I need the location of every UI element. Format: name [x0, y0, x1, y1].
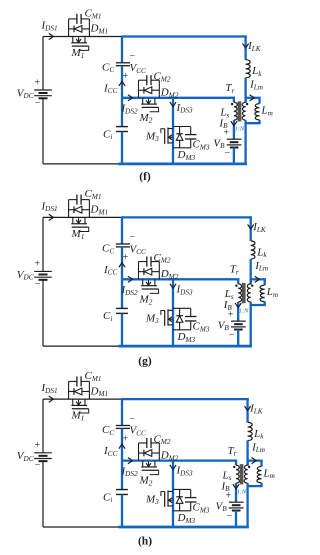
label V_CC minus g — [130, 232, 136, 243]
svg-text:(g): (g) — [138, 355, 152, 367]
wire mid column seg3 g — [121, 279, 123, 308]
arrow I_DS3 f — [170, 102, 176, 107]
wire bottom black h — [43, 526, 119, 528]
inductor L_k g — [251, 241, 255, 259]
wire transformer primary bottom lead h — [246, 483, 248, 528]
svg-text:Lk: Lk — [256, 246, 267, 259]
wire secondary bottom lead g — [237, 302, 239, 321]
wire L_m right upper h — [260, 460, 262, 467]
wire left vertical upper g — [42, 217, 44, 271]
wire right column upper h — [246, 398, 248, 422]
transformer dot secondary g — [235, 284, 237, 286]
label V_CC h — [130, 425, 147, 438]
label I_DS3 g — [176, 283, 193, 296]
svg-text:1:N: 1:N — [239, 308, 249, 315]
label V_DC plus f — [35, 77, 41, 88]
label V_DC g — [17, 269, 34, 282]
label C_M3 g — [193, 321, 210, 334]
wire bottom rail h — [119, 526, 249, 529]
arrow I_Lm f — [250, 95, 255, 101]
wire left vertical lower g — [42, 280, 44, 346]
label I_Lm f — [249, 79, 263, 92]
label V_B h — [216, 500, 228, 513]
wire input top (I_DS1 wire) g — [43, 216, 122, 218]
wire transformer secondary top lead g — [237, 278, 239, 284]
wire transformer primary top lead g — [250, 278, 252, 284]
wire right column upper g — [250, 216, 252, 240]
svg-text:Ci: Ci — [103, 310, 112, 323]
mosfet M3 h — [145, 490, 173, 506]
transformer dot secondary f — [231, 103, 233, 105]
svg-text:−: − — [130, 414, 136, 425]
arrow I_B h — [233, 484, 239, 489]
label I_LK h — [249, 403, 264, 416]
svg-text:Tr: Tr — [225, 82, 234, 95]
svg-text:VB: VB — [213, 137, 225, 150]
label C_C g — [102, 243, 114, 256]
wire right column lower g — [250, 259, 252, 284]
svg-text:VCC: VCC — [130, 425, 147, 438]
svg-text:−: − — [35, 460, 41, 471]
arrow I_Lm g — [255, 276, 260, 282]
svg-text:Lm: Lm — [261, 105, 273, 118]
snubber C_M2 D_M2 box g — [139, 252, 179, 281]
label L_s h — [222, 469, 232, 482]
wire mid column seg1 h — [121, 398, 123, 425]
svg-text:+: + — [35, 77, 41, 88]
label V_DC f — [17, 87, 34, 100]
svg-text:DM1: DM1 — [90, 204, 109, 217]
svg-text:+: + — [123, 71, 129, 82]
label I_DS3 h — [176, 465, 193, 478]
svg-text:1:N: 1:N — [237, 489, 247, 496]
transformer L_s secondary winding h — [236, 465, 239, 483]
label C_M3 h — [193, 502, 210, 515]
svg-text:(f): (f) — [139, 171, 151, 183]
wire middle node f — [122, 97, 235, 99]
svg-text:CM1: CM1 — [85, 188, 102, 201]
wire L_m right upper f — [258, 97, 260, 104]
svg-text:+: + — [226, 490, 232, 501]
svg-text:M3: M3 — [145, 312, 159, 325]
arrow I_DS3 h — [170, 465, 176, 470]
wire top rail f — [122, 35, 247, 37]
wire right column lower f — [244, 78, 246, 103]
label V_B g — [218, 319, 230, 332]
label I_LK f — [247, 40, 262, 53]
label V_CC plus f — [123, 71, 129, 82]
svg-text:ILK: ILK — [252, 221, 267, 234]
label D_M3 g — [177, 331, 196, 344]
label L_k g — [256, 246, 267, 259]
mosfet M2 f — [139, 98, 159, 125]
transformer L_s secondary winding g — [238, 284, 241, 302]
inductor L_k f — [246, 60, 251, 78]
capacitor C_C g — [116, 244, 130, 247]
transformer T_r primary winding h — [244, 465, 247, 483]
transformer dot secondary h — [233, 466, 235, 468]
wire L_m bottom jog h — [247, 485, 263, 487]
svg-text:DM3: DM3 — [177, 149, 196, 162]
arrow I_CC g — [119, 263, 125, 268]
wire bottom rail f — [119, 162, 247, 165]
svg-text:ILK: ILK — [247, 40, 262, 53]
svg-text:IDS3: IDS3 — [176, 102, 193, 115]
wire right column upper f — [244, 36, 246, 60]
mosfet M2 g — [139, 279, 159, 306]
label I_DS3 f — [176, 102, 193, 115]
label 1:N f — [235, 126, 245, 133]
wire left vertical upper f — [42, 37, 44, 91]
svg-text:M1: M1 — [71, 47, 85, 60]
svg-text:CM1: CM1 — [85, 8, 102, 21]
wire L_m right lower f — [258, 120, 260, 123]
svg-text:VB: VB — [218, 319, 230, 332]
snubber C_M2 D_M2 box h — [139, 433, 179, 462]
wire secondary bottom lead h — [235, 483, 237, 502]
svg-text:CM2: CM2 — [154, 71, 171, 84]
svg-text:IDS2: IDS2 — [121, 103, 138, 116]
label T_r f — [225, 82, 234, 95]
label I_B f — [218, 117, 228, 130]
label I_Lm h — [251, 441, 265, 454]
svg-text:CC: CC — [102, 424, 114, 437]
svg-text:Ci: Ci — [103, 128, 112, 141]
arrow I_DS1 g — [49, 214, 54, 220]
wire top rail g — [122, 216, 252, 218]
wire mid column seg2 f — [121, 66, 123, 98]
svg-text:−: − — [224, 148, 230, 159]
battery V_DC f — [34, 90, 52, 98]
label T_r h — [228, 445, 237, 458]
snubber C_M2 D_M2 box f — [139, 71, 179, 100]
snubber D_M3 C_M3 network h — [173, 489, 196, 510]
snubber C_M1 D_M1 box g — [69, 188, 108, 217]
svg-text:+: + — [35, 440, 41, 451]
svg-text:+: + — [223, 128, 229, 139]
arrow I_CC f — [119, 81, 125, 86]
svg-text:IDS2: IDS2 — [121, 284, 138, 297]
snubber C_M1 D_M1 box f — [69, 8, 108, 37]
mosfet M3 g — [145, 309, 173, 326]
svg-text:IDS2: IDS2 — [121, 465, 138, 478]
svg-text:ILm: ILm — [254, 260, 268, 273]
label V_DC h — [17, 450, 34, 463]
transformer dot primary g — [251, 284, 253, 286]
svg-text:ICC: ICC — [103, 82, 117, 95]
wire L_m right lower h — [260, 483, 262, 486]
svg-text:IDS3: IDS3 — [176, 465, 193, 478]
wire transformer secondary top lead h — [235, 460, 237, 466]
svg-text:M1: M1 — [71, 228, 85, 241]
label I_CC f — [103, 82, 117, 95]
svg-text:ILm: ILm — [251, 441, 265, 454]
svg-text:CM3: CM3 — [193, 321, 210, 334]
transformer T_r primary winding g — [247, 284, 250, 302]
label I_CC h — [103, 445, 117, 458]
svg-text:CM2: CM2 — [154, 252, 171, 265]
arrow I_B g — [235, 303, 241, 308]
svg-text:Lm: Lm — [266, 286, 278, 299]
label V_DC plus g — [35, 259, 41, 270]
svg-text:Ci: Ci — [103, 491, 112, 504]
svg-text:M2: M2 — [139, 112, 153, 125]
capacitor C_i f — [116, 127, 128, 132]
label I_DS2 f — [121, 103, 138, 116]
svg-text:−: − — [130, 232, 136, 243]
label L_s f — [219, 107, 229, 120]
wire bottom black g — [43, 345, 119, 347]
svg-text:VDC: VDC — [17, 87, 34, 100]
label I_CC g — [103, 264, 117, 277]
label D_M3 h — [177, 512, 196, 525]
transformer dot primary h — [248, 466, 250, 468]
arrow I_LK g — [248, 224, 254, 229]
capacitor C_i g — [116, 308, 128, 313]
arrow I_DS3 g — [170, 284, 176, 289]
wire right column lower h — [246, 441, 248, 466]
wire top rail h — [122, 398, 249, 400]
arrow I_LK h — [245, 406, 251, 411]
svg-text:M2: M2 — [139, 294, 153, 307]
label I_DS1 h — [41, 382, 58, 395]
svg-text:+: + — [123, 434, 129, 445]
snubber C_M1 D_M1 box h — [69, 370, 108, 399]
wire middle node h — [122, 459, 237, 461]
label I_B h — [221, 480, 231, 493]
inductor L_k h — [248, 422, 253, 440]
svg-text:CC: CC — [102, 243, 114, 256]
inductor L_m g — [260, 285, 265, 301]
transformer core f — [238, 101, 242, 121]
battery V_DC g — [34, 271, 52, 279]
svg-text:CM2: CM2 — [154, 433, 171, 446]
label 1:N g — [239, 308, 249, 315]
label D_M3 f — [177, 149, 196, 162]
capacitor C_C h — [116, 426, 130, 429]
mosfet M3 f — [145, 128, 173, 144]
arrow I_DS2 g — [128, 276, 133, 282]
label T_r g — [230, 263, 239, 276]
svg-text:+: + — [123, 252, 129, 263]
mosfet M2 h — [139, 461, 159, 488]
wire secondary bottom lead f — [233, 120, 235, 139]
label C_C f — [102, 61, 114, 74]
wire mid column seg1 g — [121, 216, 123, 244]
wire L_m bottom jog f — [245, 122, 261, 124]
wire V_B bottom lead g — [237, 330, 239, 347]
arrow I_B f — [231, 121, 237, 126]
svg-text:Lm: Lm — [263, 467, 275, 480]
wire input top (I_DS1 wire) f — [43, 36, 122, 38]
label C_i f — [103, 128, 112, 141]
svg-text:DM3: DM3 — [177, 331, 196, 344]
svg-text:M1: M1 — [71, 410, 85, 423]
arrow I_DS2 f — [128, 95, 133, 101]
svg-text:CM3: CM3 — [193, 502, 210, 515]
svg-text:DM2: DM2 — [160, 87, 179, 100]
wire transformer primary bottom lead f — [244, 120, 246, 165]
wire L_m right lower g — [264, 302, 266, 305]
wire mid column seg3 h — [121, 461, 123, 490]
arrow I_Lm h — [252, 458, 257, 464]
battery V_B f — [227, 139, 242, 147]
mosfet M1 h — [71, 399, 89, 422]
svg-text:M3: M3 — [145, 493, 159, 506]
svg-text:VB: VB — [216, 500, 228, 513]
label L_k f — [251, 65, 262, 78]
wire M3 column h — [172, 461, 174, 527]
svg-text:DM3: DM3 — [177, 512, 196, 525]
svg-text:IDS1: IDS1 — [41, 382, 58, 395]
label V_B minus g — [229, 330, 235, 341]
snubber D_M3 C_M3 network f — [173, 127, 196, 148]
transformer L_s secondary winding f — [234, 102, 237, 120]
wire mid column seg2 g — [121, 247, 123, 279]
svg-text:VCC: VCC — [130, 243, 147, 256]
wire mid column seg2 h — [121, 428, 123, 460]
label I_DS1 f — [41, 20, 58, 33]
svg-text:−: − — [227, 511, 233, 522]
svg-text:CC: CC — [102, 61, 114, 74]
wire transformer primary bottom lead g — [250, 302, 252, 347]
wire mid column seg4 g — [121, 313, 123, 346]
wire input top (I_DS1 wire) h — [43, 398, 122, 400]
arrow I_LK f — [243, 43, 249, 48]
label V_B minus h — [227, 511, 233, 522]
label V_B plus g — [228, 309, 234, 320]
label L_m f — [261, 105, 273, 118]
wire bottom black f — [43, 163, 119, 165]
svg-text:VDC: VDC — [17, 450, 34, 463]
wire L_m bottom jog g — [250, 304, 266, 306]
svg-text:1:N: 1:N — [235, 126, 245, 133]
wire M3 column g — [172, 279, 174, 346]
label I_B g — [223, 299, 233, 312]
svg-text:Tr: Tr — [230, 263, 239, 276]
label L_k h — [253, 428, 264, 441]
label C_i g — [103, 310, 112, 323]
wire transformer primary top lead h — [246, 460, 248, 466]
wire transformer primary top lead f — [244, 97, 246, 103]
wire middle node g — [122, 278, 239, 280]
label I_DS1 g — [41, 200, 58, 213]
svg-text:−: − — [35, 279, 41, 290]
wire left vertical lower h — [42, 461, 44, 527]
wire L_m right upper g — [264, 278, 266, 285]
svg-text:Tr: Tr — [228, 445, 237, 458]
svg-text:+: + — [228, 309, 234, 320]
battery V_B g — [231, 321, 246, 329]
svg-text:ICC: ICC — [103, 445, 117, 458]
label V_CC f — [130, 62, 147, 75]
arrow I_DS2 h — [128, 458, 133, 464]
svg-text:ICC: ICC — [103, 264, 117, 277]
label V_B plus f — [223, 128, 229, 139]
wire bottom rail g — [119, 345, 252, 348]
label L_m g — [266, 286, 278, 299]
wire M3 column f — [172, 98, 174, 164]
wire L_m top jog g — [251, 278, 266, 280]
svg-text:DM1: DM1 — [90, 385, 109, 398]
svg-text:−: − — [130, 51, 136, 62]
svg-text:+: + — [35, 259, 41, 270]
label V_B f — [213, 137, 225, 150]
arrow I_CC h — [119, 444, 125, 449]
svg-text:Lk: Lk — [251, 65, 262, 78]
battery V_DC h — [34, 453, 52, 461]
svg-text:IDS1: IDS1 — [41, 20, 58, 33]
capacitor C_i h — [116, 490, 128, 495]
svg-text:Lk: Lk — [253, 428, 264, 441]
wire mid column seg4 f — [121, 132, 123, 164]
inductor L_m h — [257, 466, 262, 482]
wire L_m top jog f — [246, 97, 261, 99]
wire left vertical upper h — [42, 399, 44, 453]
wire mid column seg4 h — [121, 494, 123, 527]
arrow I_DS1 f — [49, 33, 54, 39]
wire mid column seg3 f — [121, 98, 123, 127]
label I_Lm g — [254, 260, 268, 273]
label V_B minus f — [224, 148, 230, 159]
transformer dot primary f — [246, 103, 248, 105]
svg-text:DM1: DM1 — [90, 23, 109, 36]
svg-text:CM3: CM3 — [193, 139, 210, 152]
label C_C h — [102, 424, 114, 437]
label L_s g — [224, 288, 234, 301]
label V_CC plus g — [123, 252, 129, 263]
wire mid column seg1 f — [121, 36, 123, 63]
svg-text:−: − — [35, 97, 41, 108]
label C_M3 f — [193, 139, 210, 152]
svg-text:ILm: ILm — [249, 79, 263, 92]
label L_m h — [263, 467, 275, 480]
label V_DC plus h — [35, 440, 41, 451]
wire V_B bottom lead f — [233, 148, 235, 164]
label V_DC minus h — [35, 460, 41, 471]
transformer T_r primary winding f — [242, 102, 245, 120]
svg-text:VCC: VCC — [130, 62, 147, 75]
wire left vertical lower f — [42, 98, 44, 164]
wire transformer secondary top lead f — [233, 97, 235, 103]
transformer core g — [242, 283, 246, 303]
svg-text:DM2: DM2 — [160, 268, 179, 281]
label C_i h — [103, 491, 112, 504]
svg-text:M2: M2 — [139, 475, 153, 488]
svg-text:M3: M3 — [145, 130, 159, 143]
capacitor C_C f — [116, 63, 130, 66]
arrow I_DS1 h — [49, 396, 54, 402]
label V_B plus h — [226, 490, 232, 501]
svg-text:(h): (h) — [138, 536, 152, 548]
mosfet M1 f — [71, 37, 89, 60]
battery V_B h — [229, 502, 244, 510]
svg-text:ILK: ILK — [249, 403, 264, 416]
label 1:N h — [237, 489, 247, 496]
svg-text:VDC: VDC — [17, 269, 34, 282]
label I_DS2 h — [121, 465, 138, 478]
wire V_B bottom lead h — [235, 511, 237, 527]
svg-text:−: − — [229, 330, 235, 341]
svg-text:IDS1: IDS1 — [41, 200, 58, 213]
label V_CC minus h — [130, 414, 136, 425]
svg-text:DM2: DM2 — [160, 450, 179, 463]
svg-text:IDS3: IDS3 — [176, 283, 193, 296]
label V_CC plus h — [123, 434, 129, 445]
mosfet M1 g — [71, 217, 89, 241]
wire L_m top jog h — [248, 459, 263, 461]
label I_LK g — [252, 221, 267, 234]
